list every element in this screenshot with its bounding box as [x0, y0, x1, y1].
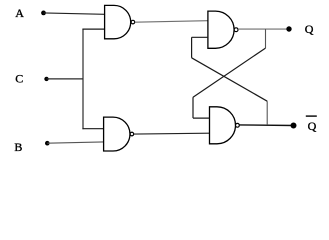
wire C to branch point [47, 78, 84, 80]
nand gate U2 (bottom left) [104, 117, 134, 151]
node A input dot [41, 11, 46, 16]
wire C branch to U1 input 2 [82, 28, 104, 30]
nand gate U4 (bottom right) [210, 107, 240, 144]
svg-text:B: B [14, 140, 22, 154]
wire U4 output to Qbar [239, 124, 293, 127]
wire Q feedback tap vertical [265, 29, 267, 48]
wire B to gate U2 [47, 142, 103, 143]
wire Q feedback diagonal to lower left [193, 48, 266, 97]
wire U2 output to U4 input 2 [134, 132, 210, 135]
wire U1 output to U3 input 1 [135, 21, 208, 23]
nand gate U3 (top right) [208, 11, 238, 48]
node C input dot [44, 77, 48, 81]
wire Qbar feedback vertical up [191, 37, 193, 58]
node Q output dot [286, 26, 291, 31]
wire Qbar feedback tap vertical [266, 101, 268, 125]
node Qbar output dot [291, 123, 297, 129]
wire C vertical branch [82, 29, 84, 129]
svg-text:A: A [15, 6, 24, 20]
wire C branch to U2 input 1 [82, 128, 103, 130]
wire Qbar feedback diagonal to upper left [192, 58, 268, 101]
label Qbar [306, 116, 317, 133]
svg-text:Q: Q [308, 119, 317, 133]
nand gate U1 (top left) [105, 5, 135, 38]
wire A to gate U1 [44, 13, 105, 14]
wire U3 output to Q [238, 28, 289, 30]
node B input dot [45, 141, 50, 146]
svg-text:Q: Q [305, 22, 314, 36]
svg-text:C: C [15, 72, 23, 86]
wire Qbar feedback into U3 input 2 [192, 36, 208, 38]
wire Q feedback vertical down [192, 97, 194, 118]
wire Q feedback into U4 input 1 [193, 117, 210, 119]
